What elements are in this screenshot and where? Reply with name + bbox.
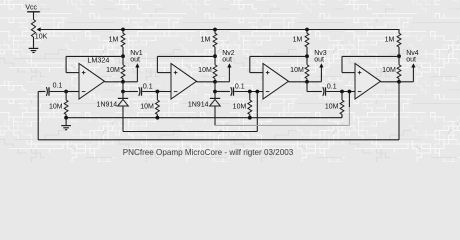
- potentiometer 10K: [31, 20, 35, 38]
- resistor 10M input (stage 1): [65, 92, 67, 101]
- node output stage 2: [213, 80, 217, 84]
- node output stage 1: [121, 80, 125, 84]
- node rail junction stage 1: [121, 28, 125, 32]
- node coupling junction stage 1: [121, 90, 125, 94]
- svg-text:10K: 10K: [35, 33, 48, 40]
- wire to capacitor (stage 2): [215, 91, 230, 93]
- capacitor 0.1 (stage 4 to stage 1): [46, 87, 47, 96]
- ground (pot): [29, 47, 39, 49]
- resistor 10M feedback (stage 4): [398, 56, 400, 65]
- svg-text:1N914: 1N914: [188, 102, 209, 109]
- svg-text:10M: 10M: [290, 67, 304, 74]
- node input junction stage 2: [156, 90, 160, 94]
- svg-text:10M: 10M: [325, 103, 339, 110]
- diode D2 1N914 (stage 2): [214, 92, 216, 99]
- wire feedback to + input (stage 4): [342, 55, 399, 57]
- svg-text:LM324: LM324: [87, 55, 109, 64]
- ground (common rail): [65, 118, 67, 126]
- resistor 1M (stage 2): [214, 30, 216, 34]
- wire output (stage 3): [289, 81, 308, 83]
- node rail ground junction: [64, 116, 68, 120]
- wire stage 4 output feedback loop: [398, 82, 400, 140]
- node rail 10M junction stage 3: [248, 116, 252, 120]
- svg-text:10M: 10M: [140, 103, 154, 110]
- wire output (stage 2): [197, 81, 216, 83]
- node stage 3 input route junction: [255, 90, 259, 94]
- wire capacitor to stage 2 input: [142, 91, 171, 93]
- wire stage1 - input stub: [66, 91, 79, 93]
- resistor 10M input (stage 3): [249, 92, 251, 101]
- wire output (stage 1): [105, 81, 124, 83]
- capacitor 0.1 (stage 3 to stage 4): [323, 87, 324, 96]
- svg-text:1N914: 1N914: [97, 102, 118, 109]
- svg-text:10M: 10M: [198, 67, 212, 74]
- node bias junction stage 1: [121, 54, 125, 58]
- Vcc power symbol: [27, 11, 40, 13]
- node coupling junction stage 2: [213, 90, 217, 94]
- wire output (stage 4): [381, 81, 400, 83]
- node output stage 3: [305, 80, 309, 84]
- node bias junction stage 3: [305, 54, 309, 58]
- wire bias rail: [40, 29, 399, 31]
- node rail junction stage 2: [213, 28, 217, 32]
- resistor 1M (stage 1): [122, 30, 124, 34]
- capacitor 0.1 (stage 2 to stage 3): [231, 87, 232, 96]
- resistor 10M input (stage 2): [156, 92, 158, 101]
- svg-text:10M: 10M: [233, 103, 247, 110]
- wire output to coupling row (stage 3): [306, 82, 308, 92]
- node input junction stage 3: [248, 90, 252, 94]
- node rail junction stage 4: [398, 29, 400, 30]
- wire to capacitor (stage 3): [307, 91, 322, 93]
- wire capacitor to stage 3 input: [234, 91, 263, 93]
- arrow to Nv4 out label: [399, 81, 413, 83]
- node input junction stage 4: [340, 90, 344, 94]
- svg-text:10M: 10M: [106, 67, 120, 74]
- svg-text:0.1: 0.1: [327, 83, 337, 90]
- svg-text:1M: 1M: [293, 37, 303, 44]
- resistor 1M (stage 4): [398, 30, 400, 34]
- node rail junction stage 3: [305, 28, 309, 32]
- svg-text:10M: 10M: [49, 103, 63, 110]
- node output stage 4: [397, 80, 401, 84]
- wire diode D2 to stage 4 input: [214, 106, 216, 125]
- svg-text:1M: 1M: [385, 37, 395, 44]
- op-amp U1A (stage 1): [79, 64, 105, 100]
- arrow to Nv3 out label: [307, 81, 321, 83]
- capacitor 0.1 (stage 1 to stage 2): [139, 87, 140, 96]
- resistor 10M feedback (stage 3): [306, 56, 308, 65]
- svg-text:1M: 1M: [201, 37, 211, 44]
- resistor 1M (stage 3): [306, 30, 308, 34]
- node input junction stage 1: [64, 90, 68, 94]
- op-amp U1B (stage 2): [171, 64, 197, 100]
- svg-text:out: out: [130, 57, 140, 64]
- wire to capacitor (stage 1): [123, 91, 138, 93]
- svg-text:0.1: 0.1: [53, 83, 63, 90]
- arrow to Nv2 out label: [215, 81, 229, 83]
- resistor 10M input (stage 4): [341, 92, 343, 101]
- wire feedback to + input (stage 3): [250, 55, 307, 57]
- wire feedback to + input (stage 1): [66, 55, 123, 57]
- resistor 10M feedback (stage 2): [214, 56, 216, 65]
- wire diode D1 to stage 3 input: [122, 106, 124, 132]
- node stage 4 input route junction: [348, 90, 352, 94]
- svg-text:10M: 10M: [382, 67, 396, 74]
- svg-text:0.1: 0.1: [143, 83, 153, 90]
- node bias junction stage 2: [213, 54, 217, 58]
- node rail 10M junction stage 2: [156, 116, 160, 120]
- op-amp U1D (stage 4): [355, 64, 381, 100]
- svg-text:out: out: [222, 57, 232, 64]
- diode D1 1N914 (stage 1): [122, 92, 124, 99]
- wire common rail: [66, 117, 342, 119]
- svg-text:0.1: 0.1: [235, 83, 245, 90]
- resistor 10M feedback (stage 1): [122, 56, 124, 65]
- arrow to Nv1 out label: [123, 81, 137, 83]
- svg-text:1M: 1M: [109, 37, 119, 44]
- node bias junction stage 4: [397, 54, 401, 58]
- svg-text:Vcc: Vcc: [25, 5, 37, 12]
- svg-text:out: out: [406, 57, 416, 64]
- wire capacitor to stage 1 input: [50, 91, 66, 93]
- wire capacitor to stage 4 input: [326, 91, 355, 93]
- svg-text:PNCfree Opamp MicroCore - wilf: PNCfree Opamp MicroCore - wilf rigter 03…: [123, 148, 294, 157]
- wire feedback to + input (stage 2): [157, 55, 215, 57]
- op-amp U1C (stage 3): [263, 64, 289, 100]
- svg-text:out: out: [314, 57, 324, 64]
- wire output to coupling row (stage 2): [214, 82, 216, 92]
- wire output to coupling row (stage 1): [122, 82, 124, 92]
